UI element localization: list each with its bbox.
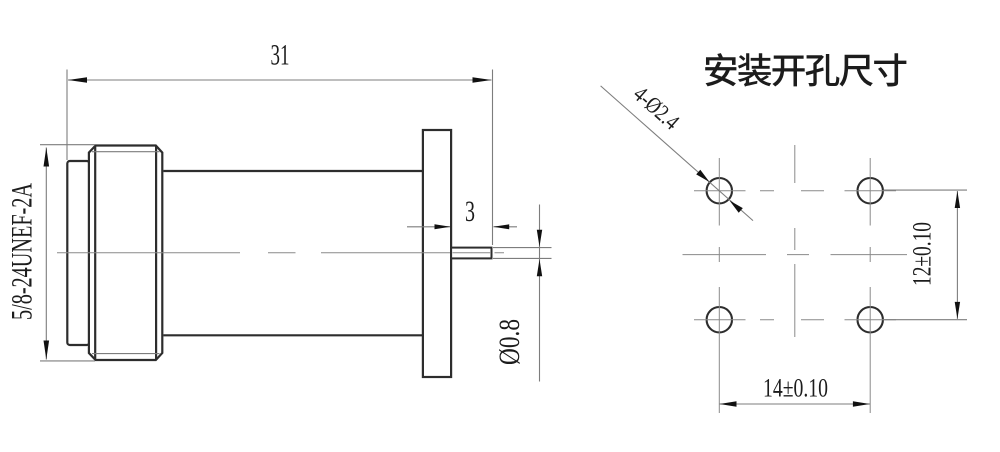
svg-text:3: 3 — [465, 195, 475, 228]
dim 3: dimension line right segment — [494, 226, 518, 228]
mounting hole top-left — [707, 178, 732, 203]
mounting hole bottom-right — [858, 307, 883, 332]
dim 3: left arrowhead (points right at flange face) — [435, 224, 451, 229]
nut bottom chamfer thin line — [92, 353, 160, 355]
leader 4-O2.4: leader line through top-left hole — [601, 86, 753, 221]
svg-text:Ø0.8: Ø0.8 — [493, 319, 526, 365]
svg-text:12±0.10: 12±0.10 — [908, 222, 937, 286]
dim 31: left arrowhead — [68, 77, 87, 83]
dim 0.8: lower arrowhead (points up at pin bottom) — [537, 259, 542, 276]
central horizontal centerline — [683, 254, 908, 256]
left view: main body cylinder — [163, 171, 423, 335]
left view: rear gasket cylinder — [67, 161, 89, 345]
dim 31: extension line left — [66, 70, 68, 161]
left view: mounting flange — [423, 130, 451, 377]
dim 31: right arrowhead — [473, 77, 492, 83]
vertical centerline dashes: right column — [869, 247, 871, 262]
mounting hole bottom-left — [707, 307, 732, 332]
left view: center contact pin — [451, 248, 491, 259]
nut left flat edge line — [94, 146, 96, 359]
dim 31: dimension line — [68, 79, 492, 81]
crosshair top-right hole — [845, 158, 897, 226]
centerline dashes between holes: bottom row — [760, 319, 824, 321]
svg-text:5/8-24UNEF-2A: 5/8-24UNEF-2A — [6, 183, 39, 320]
right view title: mounting hole dimensions (CJK paths) — [705, 53, 906, 86]
dim 12: bottom arrowhead — [955, 302, 960, 319]
central vertical centerline — [794, 145, 796, 337]
left view: coupling hex nut body — [89, 146, 162, 361]
mounting hole top-right — [858, 178, 883, 203]
dim 31: extension line right (shared with dim 3) — [492, 70, 494, 246]
dim 3: right arrowhead (points left at pin end) — [493, 224, 509, 229]
nut top chamfer thin line — [92, 151, 160, 153]
dim 14: right arrowhead — [853, 401, 870, 406]
crosshair bottom-left hole (merges into 14 dim extension) — [694, 287, 746, 413]
dim 5/8-24UNEF-2A: dimension line — [45, 148, 47, 360]
dim 3: dimension line left segment — [407, 226, 450, 228]
dim 5/8-24UNEF-2A: bottom arrowhead — [44, 341, 50, 360]
centerline dashes between holes: top row — [760, 190, 824, 192]
nut right flat edge line — [155, 146, 157, 359]
svg-text:14±0.10: 14±0.10 — [763, 374, 828, 403]
dim 12: bottom extension line — [884, 319, 967, 321]
dim 5/8-24UNEF-2A: bottom extension line — [40, 360, 95, 362]
dim 14: left arrowhead — [720, 401, 737, 406]
dim 5/8-24UNEF-2A: top arrowhead — [44, 148, 50, 167]
dim 0.8: upper arrowhead (points down at pin top) — [537, 230, 542, 247]
dim 12: top extension line — [884, 189, 967, 191]
leader: lower arrowhead at hole edge — [730, 201, 743, 213]
crosshair top-left hole — [694, 158, 746, 226]
dim 14: dimension line — [720, 403, 871, 405]
dim 12: top arrowhead — [955, 191, 960, 208]
leader: upper arrowhead at hole edge — [696, 170, 709, 182]
vertical centerline dashes: left column — [718, 247, 720, 262]
left view: horizontal centerline — [57, 252, 504, 254]
crosshair bottom-right hole (merges into 14 dim extension) — [845, 287, 897, 413]
dim 0.8: top extension line from pin — [493, 247, 552, 249]
dim 0.8: bottom extension line from pin — [493, 257, 552, 259]
svg-text:31: 31 — [271, 39, 290, 72]
dim 12: vertical dimension line — [956, 191, 958, 319]
dim 0.8: vertical dimension line — [539, 205, 541, 382]
dim 5/8-24UNEF-2A: top extension line — [40, 144, 95, 146]
